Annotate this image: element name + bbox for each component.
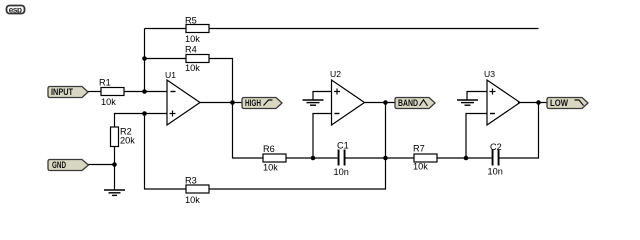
wire U1 output [200,102,242,104]
svg-text:INPUT: INPUT [51,87,73,98]
wire U2 inverting input [313,114,332,159]
resistor R2 [111,127,136,147]
junction U2 output BAND node [383,100,388,105]
capacitor C1 [334,141,349,178]
junction U1 noninverting input [142,111,147,116]
svg-text:10k: 10k [101,97,116,107]
resistor R3 [185,176,209,206]
input tag GND [48,160,89,172]
svg-text:R6: R6 [263,144,275,154]
wire C1 left lead [313,157,338,159]
wire U1 inverting node vertical [144,29,146,92]
output tag HIGH [242,98,282,110]
svg-text:C1: C1 [337,141,349,151]
wire INPUT to R1 [88,91,101,93]
wire R4 right lead to U1 output [209,59,233,103]
output tag LOW [547,98,588,110]
svg-text:R7: R7 [413,144,425,154]
op-amp U3 [484,69,520,125]
wire C2 right lead to LOW node [500,103,539,159]
wire U2 noninverting input to ground [313,92,332,100]
svg-text:HIGH: HIGH [245,98,261,109]
wire R6 to U2 summing node [286,157,313,159]
junction R5/R4 node [142,56,147,61]
svg-text:esp: esp [9,4,22,14]
wire U3 noninverting input to ground [467,92,487,100]
resistor R5 [185,16,209,45]
wire R3 to U1 noninverting node [145,114,187,190]
svg-text:U2: U2 [330,69,341,79]
wire R7 right lead [437,157,466,159]
svg-text:C2: C2 [490,142,502,152]
wire U3 output [518,102,547,104]
svg-text:LOW: LOW [550,98,568,109]
svg-text:BAND: BAND [398,98,418,109]
junction U3 output LOW node [536,100,541,105]
resistor R1 [99,78,124,108]
svg-text:10n: 10n [334,167,349,177]
svg-text:R1: R1 [99,78,111,88]
svg-text:10k: 10k [185,195,200,205]
input tag INPUT [48,87,88,99]
op-amp U1 [165,70,200,125]
wire C2 left lead [466,157,492,159]
wire R1 to U1 inverting input [124,91,167,93]
svg-text:R4: R4 [185,45,197,55]
junction R1/U1 inverting input [142,89,147,94]
wire R5 left lead [145,28,187,30]
wire R4 left lead [145,58,187,60]
junction U2 summing node [311,156,316,161]
svg-text:U1: U1 [165,70,176,80]
wire C1 right lead [346,157,386,159]
resistor R4 [185,45,209,74]
svg-text:20k: 20k [120,136,135,146]
junction BAND/C1/R7 node [383,156,388,161]
svg-text:10n: 10n [488,167,503,177]
svg-text:R5: R5 [185,16,197,26]
wire R2 to ground [114,147,116,191]
ground symbol G2 [303,100,324,105]
junction U1 output HIGH node [230,100,235,105]
wire U2 output [365,102,396,104]
svg-text:10k: 10k [185,63,200,73]
svg-text:10k: 10k [413,162,428,172]
wire GND tag lead [89,164,115,166]
wire HIGH node to R6 [233,103,264,159]
svg-text:R3: R3 [185,176,197,186]
wire U3 inverting input [466,114,487,159]
svg-text:10k: 10k [263,163,278,173]
svg-text:U3: U3 [484,69,495,79]
svg-text:10k: 10k [185,34,200,44]
op-amp U2 [330,69,365,125]
junction R7/C2/U3 node [464,156,469,161]
wire R7 left lead [386,157,415,159]
junction GND/R2 [112,162,117,167]
wire BAND node to R3 [209,103,386,190]
wire U1 noninverting input [115,114,168,128]
resistor R7 [413,144,437,172]
ground symbol G1 [104,190,125,195]
ground symbol G3 [457,100,478,105]
resistor R6 [263,144,286,173]
svg-text:GND: GND [52,160,66,171]
capacitor C2 [488,142,503,177]
ESP logo [7,4,25,14]
output tag BAND [395,98,435,110]
wire R5 right lead to LOW node [209,28,539,30]
